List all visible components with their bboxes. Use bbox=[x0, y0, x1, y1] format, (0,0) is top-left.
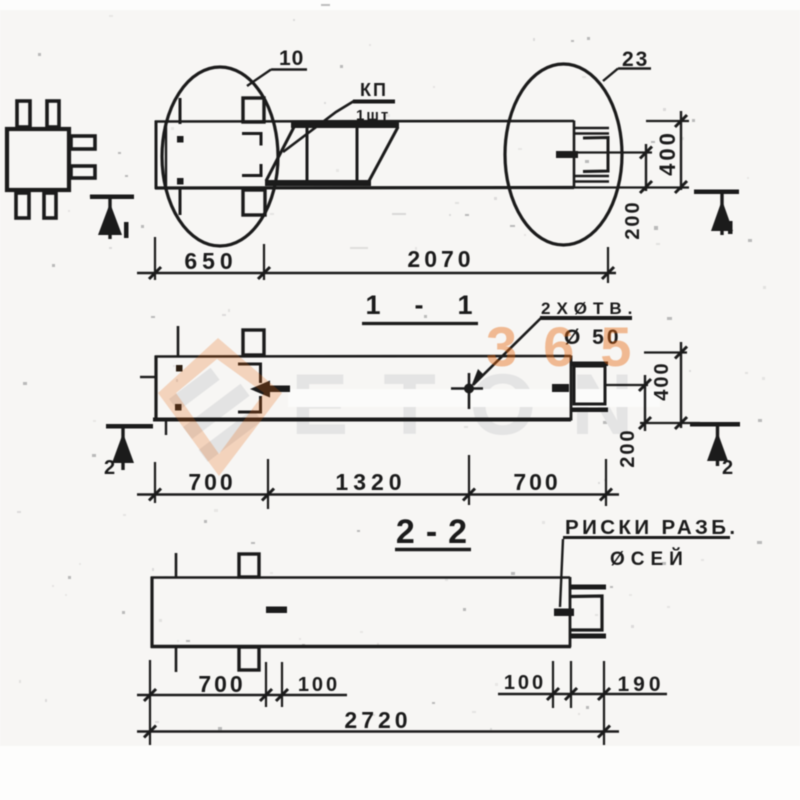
column body square bbox=[7, 129, 69, 190]
column top tab A bbox=[17, 101, 30, 127]
column top tab B bbox=[47, 101, 59, 127]
svg-text:2: 2 bbox=[722, 457, 733, 479]
svg-text:365: 365 bbox=[486, 315, 657, 378]
column bottom tab A bbox=[16, 193, 29, 218]
dim slashes bbox=[149, 267, 614, 279]
svg-text:2-2: 2-2 bbox=[396, 513, 478, 551]
section 2 marker left bbox=[104, 424, 153, 479]
svg-text:700: 700 bbox=[198, 671, 245, 697]
right ellipse callout 23 bbox=[505, 64, 622, 245]
section 1 marker left bbox=[90, 195, 134, 240]
plan right end bracket lines bbox=[574, 128, 609, 182]
2-2 riska dash bbox=[554, 609, 574, 617]
KP plate verticals bbox=[306, 128, 309, 181]
svg-text:400: 400 bbox=[655, 130, 680, 176]
label 23 bbox=[603, 48, 651, 81]
watermark diamond inner stripes (under ink) bbox=[169, 368, 262, 462]
svg-text:190: 190 bbox=[617, 673, 664, 696]
plan dim 650/2070 line bbox=[137, 272, 616, 275]
1-1 dim 200 bbox=[617, 375, 651, 468]
KP callout text bbox=[283, 80, 395, 152]
2-2 right plate square bbox=[571, 596, 602, 630]
1-1 bracket bottom bbox=[238, 396, 262, 412]
1-1 right end weld dash bbox=[552, 384, 569, 392]
svg-text:200: 200 bbox=[617, 428, 639, 467]
plan top tab bbox=[243, 98, 264, 122]
watermark diamond ring (over ink) bbox=[158, 338, 282, 476]
plan right end plate square bbox=[583, 138, 608, 172]
plan beam outline bbox=[155, 121, 574, 190]
plan dim 200 bbox=[574, 144, 689, 240]
label 10 bbox=[247, 47, 307, 86]
svg-text:700: 700 bbox=[188, 469, 235, 495]
plan right end weld dash bbox=[556, 151, 578, 158]
svg-text:КП: КП bbox=[360, 80, 388, 100]
2-2 beam outline bbox=[151, 577, 571, 649]
1-1 dim row 700/1320/700 bbox=[137, 455, 619, 509]
plan column edge marks bbox=[179, 98, 182, 124]
KP plate bottom bar bbox=[265, 180, 371, 186]
column right tab B bbox=[71, 166, 95, 178]
2-2 mid dash bbox=[266, 607, 287, 614]
2-2 column marks bbox=[175, 553, 178, 577]
svg-text:650: 650 bbox=[184, 248, 237, 274]
left ellipse callout 10 bbox=[162, 67, 278, 246]
svg-text:10: 10 bbox=[279, 47, 304, 70]
svg-text:100: 100 bbox=[298, 674, 340, 696]
2-2 top tab bbox=[239, 554, 259, 577]
column bottom tab B bbox=[44, 193, 56, 218]
1-1 beam outline bbox=[153, 356, 571, 422]
1-1 right bracket bars bbox=[571, 362, 608, 367]
svg-text:2720: 2720 bbox=[344, 707, 411, 733]
svg-text:РИСКИ РАЗБ.: РИСКИ РАЗБ. bbox=[565, 516, 739, 539]
svg-text:ØСЕЙ: ØСЕЙ bbox=[610, 548, 689, 570]
2-2 dims row 700/100 .. 100/190 bbox=[137, 660, 667, 745]
KP plate top bar bbox=[291, 123, 399, 129]
title underline bbox=[362, 322, 478, 325]
1-1 bracket top bbox=[238, 364, 262, 383]
2-2 bottom tab bbox=[239, 647, 259, 670]
svg-text:2: 2 bbox=[104, 457, 115, 479]
1-1 mid extension line bbox=[605, 384, 648, 386]
svg-text:2070: 2070 bbox=[407, 246, 474, 272]
1-1 left stub bbox=[140, 376, 156, 378]
svg-text:1шт: 1шт bbox=[356, 107, 390, 124]
svg-text:1320: 1320 bbox=[335, 469, 406, 495]
plan dim 400 bbox=[646, 111, 689, 193]
watermark stencil white band bbox=[288, 389, 660, 407]
1-1 column line above bbox=[177, 326, 180, 356]
1-1 bolt dots bbox=[176, 365, 183, 372]
1-1 right plate square bbox=[574, 366, 605, 404]
watermark ETON letters (under ink) bbox=[288, 357, 668, 453]
KP plate left slant bbox=[266, 127, 294, 181]
plan inner left wall line bbox=[165, 122, 167, 188]
plan bracket bottom bbox=[242, 164, 261, 176]
dim extension ticks bbox=[155, 237, 608, 283]
2-2 right bracket bars bbox=[569, 585, 606, 590]
riski text bbox=[560, 516, 739, 607]
section 2 marker right bbox=[690, 422, 740, 479]
2-2 dim 2720 bbox=[137, 707, 619, 738]
svg-text:100: 100 bbox=[504, 672, 546, 694]
KP plate right slant bbox=[369, 127, 398, 181]
1-1 dim 400 bbox=[640, 342, 700, 429]
hole callout 2xOTV d50 bbox=[451, 299, 638, 409]
plan bolt dots bbox=[177, 136, 184, 143]
section 1 marker right bbox=[694, 190, 739, 236]
plan bracket top bbox=[242, 134, 261, 146]
svg-text:700: 700 bbox=[513, 469, 560, 495]
title 2-2 underline bbox=[395, 548, 471, 552]
column right tab A bbox=[71, 136, 95, 149]
svg-text:200: 200 bbox=[622, 200, 644, 239]
1-1 loop arrow bbox=[250, 381, 290, 398]
plan bottom tab bbox=[243, 190, 265, 215]
1-1 top tab bbox=[243, 330, 264, 355]
1-1 tick below left bbox=[165, 421, 167, 435]
